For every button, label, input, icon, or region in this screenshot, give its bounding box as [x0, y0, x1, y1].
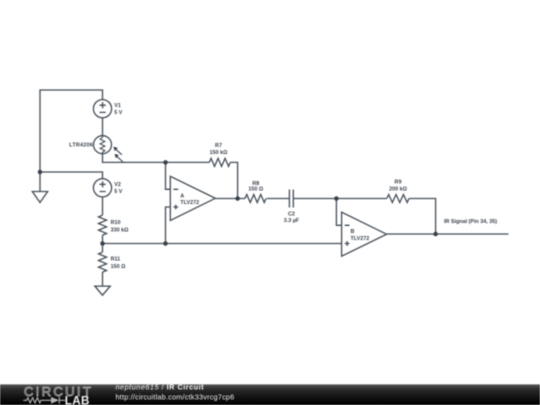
svg-text:TLV272: TLV272	[351, 236, 370, 242]
svg-text:C2: C2	[288, 211, 295, 217]
svg-text:R11: R11	[111, 256, 121, 262]
svg-text:200 kΩ: 200 kΩ	[389, 187, 407, 193]
svg-text:LAB: LAB	[65, 395, 90, 405]
svg-text:R7: R7	[215, 143, 222, 149]
svg-text:150 Ω: 150 Ω	[248, 186, 263, 192]
svg-text:B: B	[351, 229, 355, 235]
svg-text:http://circuitlab.com/ctk33vrc: http://circuitlab.com/ctk33vrcg7cp6	[116, 393, 235, 402]
svg-text:150 Ω: 150 Ω	[111, 264, 126, 270]
svg-text:R9: R9	[395, 179, 402, 185]
svg-text:LTR4206: LTR4206	[69, 143, 93, 149]
svg-text:3.3 µF: 3.3 µF	[284, 218, 300, 224]
svg-text:R10: R10	[111, 220, 121, 226]
svg-text:V2: V2	[114, 182, 121, 188]
svg-text:330 kΩ: 330 kΩ	[111, 228, 129, 234]
svg-text:TLV272: TLV272	[180, 200, 199, 206]
svg-text:5 V: 5 V	[114, 189, 122, 195]
svg-text:150 kΩ: 150 kΩ	[210, 150, 228, 156]
svg-text:neptune615 / IR Circuit: neptune615 / IR Circuit	[116, 383, 205, 392]
svg-text:A: A	[180, 194, 184, 200]
svg-text:IR Signal (Pin 34, 35): IR Signal (Pin 34, 35)	[444, 219, 497, 225]
svg-text:V1: V1	[114, 103, 121, 109]
svg-text:5 V: 5 V	[114, 110, 122, 116]
